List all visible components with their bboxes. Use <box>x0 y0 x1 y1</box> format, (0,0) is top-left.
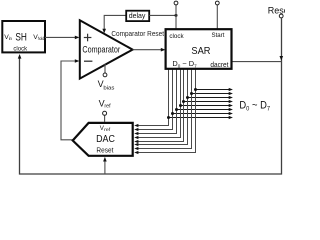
svg-text:clock: clock <box>169 33 184 40</box>
wire: delay output to comparator reset <box>102 15 126 33</box>
svg-text:SH: SH <box>15 32 27 44</box>
node: Start terminal <box>215 1 219 29</box>
node: clock terminal <box>174 1 178 29</box>
wire: bottom Reset bus <box>20 18 282 174</box>
svg-text:bias: bias <box>103 86 114 92</box>
comparator + input symbol <box>84 34 92 42</box>
wire bit D2 <box>134 69 233 135</box>
svg-text:ref: ref <box>104 104 111 110</box>
wire bit D4 <box>134 69 233 143</box>
svg-text:D0 ~ D7: D0 ~ D7 <box>239 100 270 113</box>
wire: delay input from clock junction <box>149 14 176 16</box>
wire bit D1 <box>134 69 233 131</box>
wire: Reset into dacret junction (down arrow) <box>280 56 284 61</box>
node: Vref terminal <box>103 111 107 122</box>
node: Vbias terminal <box>103 64 107 77</box>
block S/H sample-and-hold <box>2 21 45 53</box>
wire: DAC reset riser <box>103 157 107 174</box>
svg-text:hold: hold <box>38 36 45 41</box>
svg-text:dacret: dacret <box>210 62 228 69</box>
label D0 ~ D7 output bus <box>239 100 270 113</box>
svg-text:Reset: Reset <box>268 5 285 15</box>
svg-text:Comparator: Comparator <box>82 45 120 55</box>
wire: DAC feedback to comparator - input <box>61 59 79 140</box>
svg-text:SAR: SAR <box>191 46 210 57</box>
node: Reset terminal top right <box>268 5 292 18</box>
svg-text:clock: clock <box>13 46 27 53</box>
svg-text:Comparator Reset: Comparator Reset <box>111 29 164 38</box>
block DAC <box>73 123 133 156</box>
svg-text:D0 ~ D7: D0 ~ D7 <box>172 59 197 68</box>
wire bit D7 <box>134 69 233 154</box>
wire bit D3 <box>134 69 233 139</box>
block SAR logic <box>166 29 232 69</box>
op-amp comparator U1 <box>80 20 133 78</box>
wire: SH clock riser arrow <box>18 54 22 59</box>
svg-text:Start: Start <box>212 32 225 39</box>
wire bit D5 <box>134 69 233 146</box>
delay block <box>126 11 149 21</box>
svg-text:ref: ref <box>104 127 111 132</box>
svg-text:Reset: Reset <box>96 148 113 155</box>
svg-text:delay: delay <box>129 11 146 20</box>
comparator - input symbol <box>84 60 92 62</box>
node: junction of clock and delay input <box>175 14 178 17</box>
wire: dacret to Reset line <box>232 61 282 63</box>
wire bit D0 <box>134 69 233 127</box>
wire: SH output to comparator + input <box>45 36 79 40</box>
wire: comparator output to SAR <box>133 48 166 52</box>
svg-text:DAC: DAC <box>96 133 115 145</box>
wire bit D6 <box>134 69 233 150</box>
